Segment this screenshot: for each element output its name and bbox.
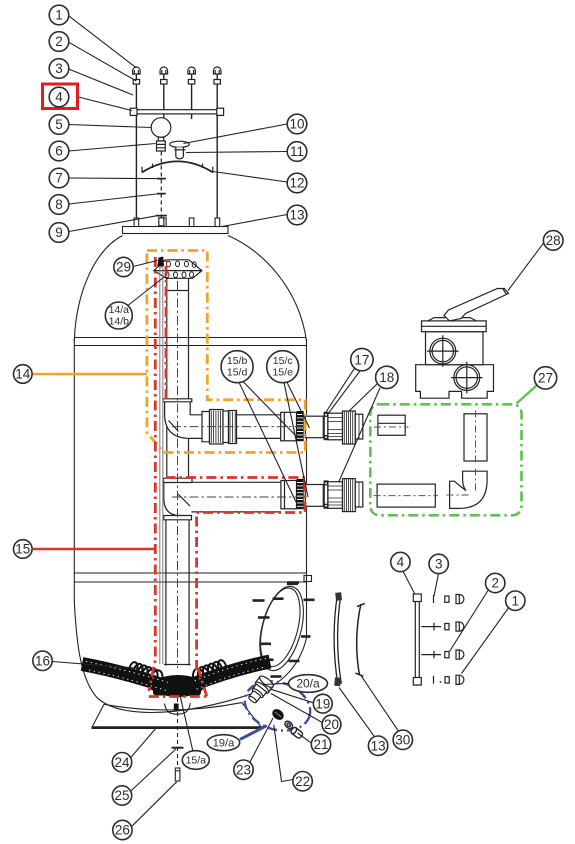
callout 10	[287, 114, 307, 134]
callout 19/a	[207, 735, 239, 751]
svg-text:4: 4	[397, 555, 405, 570]
callout 14	[13, 365, 32, 384]
leader line to callout 9 (rod nut)	[69, 216, 157, 232]
leader lines to callout 15/b 15/d (bulkheads)	[239, 382, 298, 503]
leader line to callout 16 (laterals)	[52, 662, 148, 670]
leader line to callout 6 (gauge valve)	[69, 144, 156, 152]
leader line to callout 4 (clamp bar)	[79, 97, 132, 111]
leader line to callout 28 (valve handle)	[508, 243, 544, 291]
callout 1 exploded	[506, 591, 525, 610]
callout 7	[49, 168, 69, 188]
svg-text:20: 20	[324, 717, 339, 732]
callout 6	[49, 141, 69, 161]
orange leader 14	[33, 373, 147, 376]
callout 18	[376, 366, 398, 388]
laterals item 16	[82, 659, 270, 691]
callout 8	[49, 195, 69, 215]
green box pieces	[377, 414, 487, 509]
svg-text:22: 22	[295, 774, 310, 789]
leader line to callout 23 (drain nut)	[250, 718, 274, 763]
callout 5	[49, 115, 69, 135]
lid dome item 12	[142, 161, 213, 172]
internal piping	[154, 260, 304, 666]
svg-text:15/c: 15/c	[273, 355, 293, 367]
svg-text:21: 21	[313, 737, 328, 752]
svg-text:23: 23	[236, 762, 251, 777]
leader line to callout 4 exploded (clamp bar)	[403, 571, 415, 594]
svg-text:28: 28	[546, 233, 561, 248]
leader line to callout 5 (pressure gauge)	[69, 125, 152, 128]
callout 15/a	[182, 751, 209, 770]
callout 11	[287, 142, 307, 162]
svg-text:3: 3	[55, 61, 63, 76]
callout 2 exploded	[486, 573, 505, 592]
plug item 21	[290, 726, 304, 739]
callout 12	[287, 173, 307, 193]
laterals hub	[152, 675, 204, 697]
leader line to callout 20 (drain barb tip)	[271, 694, 322, 723]
blue leader 19/a	[240, 726, 267, 740]
socket at wall (lower)	[281, 481, 297, 509]
svg-text:19/a: 19/a	[213, 737, 235, 749]
svg-text:10: 10	[289, 117, 304, 132]
leader line to callout 19 (drain barb)	[270, 689, 314, 703]
callout 24	[112, 753, 131, 772]
dashed centerlines	[172, 281, 362, 668]
multiport valve item 28	[416, 289, 509, 399]
red leader 15	[33, 548, 155, 551]
orange highlight box item 14	[147, 251, 305, 453]
leader line to callout 11 (plug stem)	[186, 152, 287, 153]
studs and nuts rows items 1/2/3	[421, 595, 464, 685]
svg-text:1: 1	[512, 593, 520, 608]
manhole	[252, 576, 315, 677]
external fittings items 17/18	[305, 411, 363, 512]
collector item 29	[154, 260, 202, 279]
svg-text:2: 2	[491, 576, 499, 591]
leader line to callout 29 (collector)	[133, 261, 158, 267]
o-ring item 22	[283, 720, 293, 730]
washers item 2	[133, 80, 220, 85]
svg-text:27: 27	[538, 371, 553, 386]
svg-text:30: 30	[395, 733, 410, 748]
leader line to callout 14/a 14/b	[129, 278, 164, 306]
svg-text:18: 18	[379, 370, 394, 385]
svg-text:16: 16	[35, 654, 50, 669]
callout 26	[113, 820, 132, 839]
riser pipe	[167, 278, 189, 478]
top bolt assembly	[130, 67, 223, 226]
callout 4	[49, 87, 69, 107]
callout 20	[322, 715, 341, 734]
svg-text:15/a: 15/a	[186, 755, 207, 767]
svg-text:25: 25	[114, 788, 129, 803]
threaded rods item 3	[136, 74, 217, 219]
callout 16	[33, 651, 52, 670]
leader line to callout 7 (center rod)	[69, 177, 157, 180]
tee lower (item 15 group)	[164, 478, 193, 520]
leader line to callout 26 (bolt)	[132, 782, 177, 826]
leader line to callout 22 (o-ring)	[274, 725, 293, 782]
callout 27	[534, 367, 556, 389]
callout 14/a 14/b	[105, 302, 132, 329]
union item (upper)	[202, 410, 237, 445]
callout 15/b 15/d	[221, 351, 253, 383]
leader line to callout 21 (plug)	[298, 733, 312, 743]
lid clamp bar item 4	[130, 108, 223, 115]
svg-text:13: 13	[289, 208, 304, 223]
callout 2	[49, 32, 69, 52]
tank body	[74, 236, 306, 713]
base skirt	[92, 703, 262, 728]
svg-text:19: 19	[315, 696, 330, 711]
pressure gauge item 5	[151, 118, 171, 151]
svg-text:14/b: 14/b	[109, 316, 130, 328]
svg-text:8: 8	[55, 197, 63, 212]
leader line to callout 2 (washer)	[69, 42, 137, 81]
leader line to callout 24 (base skirt)	[131, 729, 156, 758]
callout 3	[49, 59, 69, 79]
leader line to callout 1 (bolt cap)	[69, 16, 137, 68]
callout 19	[313, 694, 332, 713]
callout 25	[112, 786, 131, 805]
leader line to callout 30 (gasket)	[360, 675, 398, 732]
upper elbow (item 14 group)	[163, 399, 202, 439]
drain fitting items 19/20/20a	[245, 674, 275, 706]
red box around callout 4	[43, 84, 78, 109]
hub bolt item 15/a	[172, 698, 184, 781]
leader line to callout 8 (rod washer)	[69, 194, 157, 204]
svg-text:4: 4	[55, 90, 63, 105]
svg-text:5: 5	[55, 117, 63, 132]
svg-text:1: 1	[55, 8, 63, 23]
callout 30 gasket	[393, 730, 412, 749]
bolt caps items 1	[133, 67, 221, 74]
drain nut item 23	[270, 707, 286, 722]
svg-text:20/a: 20/a	[296, 677, 320, 691]
svg-text:12: 12	[289, 176, 304, 191]
svg-text:15/b: 15/b	[227, 355, 248, 367]
air relief plug items 10/11	[170, 141, 190, 159]
svg-text:14/a: 14/a	[109, 304, 130, 316]
callout 23	[234, 760, 253, 779]
leader line to callout 13 (neck flange)	[222, 215, 287, 227]
svg-text:9: 9	[55, 225, 63, 240]
leader line to callout 13 (gasket strip)	[339, 688, 375, 737]
tube top black wedge	[157, 257, 164, 267]
svg-text:29: 29	[116, 260, 131, 275]
leader lines to callout 18 (union nuts)	[339, 384, 381, 483]
green box item 27	[370, 404, 521, 515]
leader lines to callout 17 (hose adapter flange)	[326, 368, 360, 414]
svg-text:3: 3	[435, 557, 443, 572]
bulkhead threads (upper) 15/b	[297, 411, 304, 441]
leader line to callout 3 exploded (washer)	[434, 574, 439, 596]
leader line to callout 10 (plug cap)	[184, 124, 288, 144]
svg-text:15/e: 15/e	[272, 367, 293, 379]
gasket item 30	[355, 603, 365, 676]
drain boss	[165, 703, 191, 714]
callout 28	[543, 231, 563, 251]
callout 13 gasket strip	[368, 736, 387, 755]
bulkhead threads (lower) 15/b	[297, 479, 304, 509]
svg-text:13: 13	[371, 738, 386, 753]
callout 21	[311, 735, 330, 754]
leader line to callout 20/a	[263, 683, 289, 684]
leader line to callout 15/a (hub bolt)	[180, 695, 193, 751]
callout 15/c 15/e	[267, 351, 299, 383]
callout 17	[351, 348, 373, 370]
tank neck flange	[123, 218, 229, 234]
upper horizontal pipe	[202, 415, 281, 439]
leader line to callout 25 (washer)	[131, 749, 176, 791]
callout 3 exploded	[429, 554, 448, 573]
callout 9	[49, 223, 69, 243]
svg-text:15/d: 15/d	[227, 367, 248, 379]
gauge valve item 6	[157, 141, 166, 151]
svg-text:15: 15	[15, 542, 30, 557]
callout 13	[287, 205, 307, 225]
svg-text:26: 26	[115, 823, 130, 838]
leader lines to callout 15/c 15/e (wall nuts)	[284, 382, 310, 497]
lower horizontal pipe	[192, 482, 281, 512]
leader line to callout 3 (threaded rod)	[69, 69, 133, 95]
svg-text:17: 17	[354, 352, 369, 367]
svg-text:24: 24	[114, 755, 130, 770]
leader line to callout 1 exploded (flange nut)	[462, 608, 509, 674]
center rod items 7/8/9	[160, 152, 162, 219]
svg-text:11: 11	[290, 144, 304, 159]
svg-text:6: 6	[55, 144, 63, 159]
svg-text:14: 14	[15, 367, 31, 382]
callout 20/a	[289, 675, 328, 693]
gasket strip item 13	[334, 592, 342, 686]
thin air tube	[160, 262, 163, 664]
blue highlight ellipse (drain group)	[238, 673, 316, 738]
callout 15	[13, 540, 32, 559]
callout 29	[114, 257, 133, 276]
down pipe to laterals	[166, 520, 189, 666]
callout 22	[293, 772, 312, 791]
callout 1	[49, 5, 69, 25]
svg-text:7: 7	[55, 171, 63, 186]
socket at wall (upper)	[281, 412, 297, 441]
red highlight box item 15	[149, 257, 305, 697]
svg-text:2: 2	[55, 34, 63, 49]
leader line to callout 2 exploded (square nut)	[450, 590, 489, 652]
callout 4 exploded	[391, 552, 410, 571]
leader line to callout 12 (lid dome)	[213, 172, 287, 183]
manhole clamp bar item 4 (exploded)	[413, 594, 421, 685]
